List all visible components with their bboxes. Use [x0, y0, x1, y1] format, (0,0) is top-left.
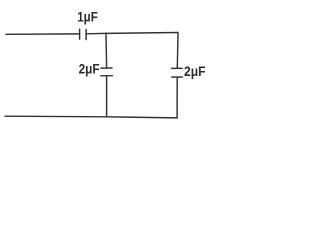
svg-text:2μF: 2μF [79, 62, 100, 77]
svg-text:1μF: 1μF [77, 9, 98, 24]
wire C2 to bottom wire [106, 76, 108, 117]
capacitor C3 (right 2uF) [172, 68, 183, 77]
capacitor C2 (middle 2uF) [101, 68, 113, 76]
wire node A down to C2 [105, 33, 108, 67]
wire C1 to node A [87, 32, 106, 34]
wire node A to top-right corner [106, 32, 178, 35]
wire top-left input to C1 [6, 33, 79, 35]
wire right branch down to C3 [176, 33, 179, 69]
wire C3 to bottom wire [176, 78, 178, 118]
node A (top junction) [105, 32, 107, 34]
svg-text:2μF: 2μF [184, 63, 206, 79]
capacitor C1 (series) [80, 29, 87, 39]
wire bottom [5, 116, 177, 118]
